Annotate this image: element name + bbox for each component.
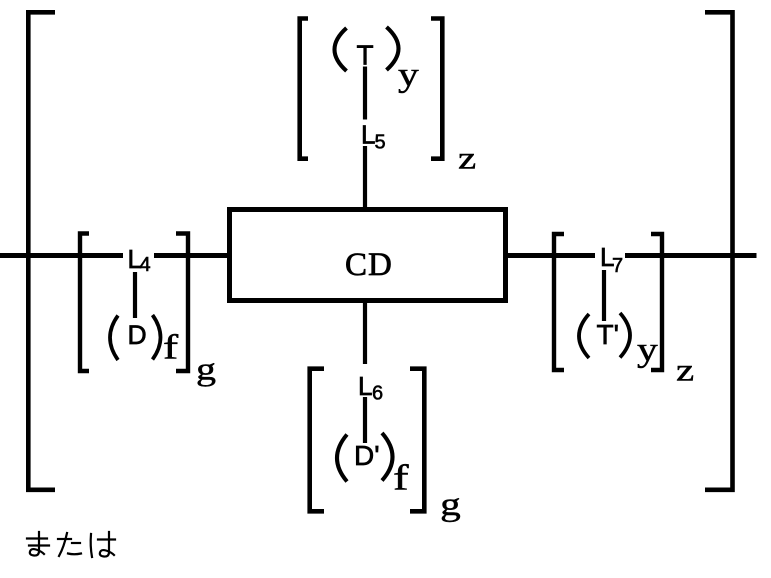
text matawa (or) : hiragana ma — [27, 532, 49, 556]
svg-text:7: 7 — [612, 255, 623, 277]
wire right of L7 to edge — [625, 253, 757, 258]
svg-text:f: f — [393, 458, 409, 498]
svg-text:y: y — [398, 56, 419, 94]
wire between L4 and CD box — [154, 253, 229, 258]
left group bracket [ — [80, 234, 89, 372]
top group bracket ] — [431, 19, 442, 159]
text matawa : hiragana ta — [58, 533, 81, 556]
svg-text:CD: CD — [345, 247, 393, 283]
bottom group bracket [ — [310, 369, 324, 512]
svg-text:4: 4 — [140, 254, 151, 276]
right paren ) — [620, 313, 630, 358]
top paren ( — [335, 28, 347, 71]
bond L6 to D' — [363, 397, 367, 443]
svg-text:z: z — [458, 140, 476, 176]
top paren ) — [387, 27, 399, 70]
right paren ( — [579, 314, 589, 358]
svg-text:L: L — [358, 371, 372, 401]
text matawa : hiragana ha — [91, 532, 115, 557]
svg-text:T: T — [357, 40, 374, 71]
bond CD to L6 — [363, 303, 367, 364]
bond L7 to T' — [602, 270, 606, 321]
svg-text:g: g — [440, 487, 461, 523]
svg-text:D': D' — [354, 440, 380, 471]
right group bracket [ — [554, 234, 564, 370]
svg-text:f: f — [163, 327, 179, 366]
svg-text:5: 5 — [375, 132, 386, 154]
svg-text:g: g — [196, 351, 216, 386]
svg-text:T': T' — [597, 319, 619, 350]
left paren ( — [110, 316, 118, 361]
wire main axis left segment — [0, 253, 123, 258]
bottom paren ( — [337, 435, 347, 482]
outer left bracket — [28, 12, 55, 490]
right group bracket ] — [651, 234, 662, 370]
svg-text:y: y — [637, 331, 658, 369]
svg-text:z: z — [676, 352, 694, 388]
svg-text:D: D — [128, 320, 147, 350]
bond L4 to D — [133, 272, 137, 318]
bond L5 to CD — [363, 146, 367, 208]
CD box — [230, 210, 506, 301]
left group bracket ] — [176, 234, 188, 372]
outer right bracket — [705, 12, 733, 490]
left paren ) — [153, 315, 161, 360]
bottom paren ) — [382, 433, 393, 481]
bottom group bracket ] — [410, 369, 424, 512]
svg-text:L: L — [361, 120, 375, 150]
svg-text:6: 6 — [372, 383, 383, 405]
bond T to L5 — [363, 67, 367, 120]
wire between CD box and L7 — [505, 253, 595, 258]
top group bracket [ — [300, 19, 308, 159]
